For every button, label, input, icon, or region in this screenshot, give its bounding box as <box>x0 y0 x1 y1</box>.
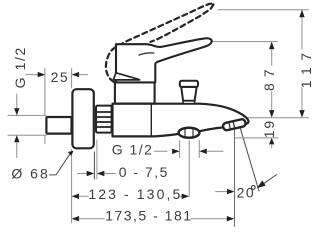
faucet: body/spout seam <box>150 105 152 136</box>
faucet: lever handle <box>116 38 212 82</box>
wire: leader Ø 68 <box>50 154 70 175</box>
wire: extension line wall top (G1/2 upper) <box>8 114 46 116</box>
wire: extension line lever tip (87) <box>212 41 278 43</box>
wire: extension aerator center <box>188 141 190 197</box>
faucet: escutcheon <box>72 89 93 148</box>
svg-text:87: 87 <box>261 63 277 91</box>
wire: slanted 20deg line <box>240 127 259 191</box>
svg-text:0 - 7,5: 0 - 7,5 <box>119 164 169 180</box>
dimension 0 - 7,5 <box>78 171 116 176</box>
faucet: handle decoration line <box>139 53 154 55</box>
wire: extension line spout tip plane <box>248 117 308 119</box>
wire: extension aerator left <box>179 141 181 158</box>
svg-text:Ø 68: Ø 68 <box>11 166 49 182</box>
faucet: body and spout outline <box>113 104 249 137</box>
faucet: dashed raised lever <box>106 4 214 82</box>
svg-text:20: 20 <box>237 185 256 201</box>
svg-text:123 - 130,5: 123 - 130,5 <box>88 186 182 202</box>
wire: extension line wall plane <box>71 69 73 89</box>
faucet: handle base <box>115 82 155 103</box>
dimension 173,5 - 181 <box>72 216 235 221</box>
svg-text:G 1/2: G 1/2 <box>112 141 154 157</box>
wire: extension line escutcheon front (dark) <box>93 152 95 179</box>
svg-text:19: 19 <box>261 119 277 138</box>
svg-text:173,5 - 181: 173,5 - 181 <box>105 207 192 223</box>
svg-text:25: 25 <box>51 69 70 85</box>
faucet: union nut <box>96 106 112 133</box>
wire: extension line wall bottom (G1/2 lower) <box>8 134 46 136</box>
faucet: wall pipe stub <box>46 117 71 134</box>
wire: extension aerator right <box>198 141 200 158</box>
svg-text:117: 117 <box>298 46 314 88</box>
wire: extension line top of dashed lever (117) <box>218 9 309 11</box>
dimension 123 - 130,5 <box>72 194 190 199</box>
dimension 19 <box>269 138 274 148</box>
wire: extension spout tip vertical (20 dim) <box>234 130 236 227</box>
wire: extension line 25-dim left <box>44 69 46 117</box>
wire: extension line aerator plane (19) <box>235 137 278 139</box>
svg-text:G 1/2: G 1/2 <box>12 46 28 88</box>
faucet: outlet sleeve (angled) <box>222 119 246 131</box>
faucet: aerator <box>179 128 200 138</box>
dimension G1/2 left vertical <box>14 94 19 158</box>
dimension 87 <box>269 42 274 118</box>
dimension G1/2 aerator arrows <box>155 149 224 154</box>
faucet: lever nose wedge <box>113 73 139 80</box>
dimension 20 degrees <box>216 175 277 195</box>
wire: extension line nut face (gray) <box>96 140 98 179</box>
faucet: diverter knob <box>180 81 198 104</box>
dimension 25 <box>26 72 88 77</box>
dimension 117 <box>299 10 304 118</box>
